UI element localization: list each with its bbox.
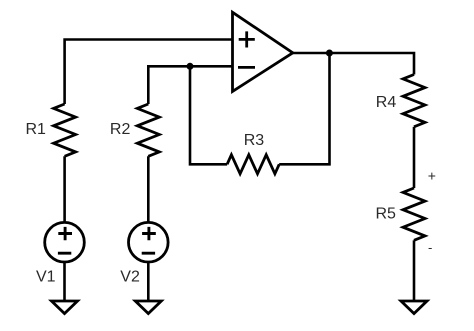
svg-text:R5: R5 <box>376 206 397 223</box>
ground under R5 <box>401 301 427 314</box>
wire R4 bottom to R5 top <box>413 127 416 188</box>
svg-text:R4: R4 <box>376 94 397 111</box>
resistor R4 <box>403 75 425 127</box>
wire node A down to R3 left <box>190 66 227 164</box>
node B output junction <box>326 50 333 57</box>
resistor R1 <box>54 104 76 156</box>
ground under V2 <box>135 301 161 314</box>
wire U1 output to R4 top <box>293 53 414 75</box>
svg-text:-: - <box>428 240 432 255</box>
wire R3 right up to output node <box>279 53 329 164</box>
ground under V1 <box>52 301 78 314</box>
wire V2 bottom to ground <box>147 262 150 301</box>
wire R2 bottom to V2 <box>147 156 150 222</box>
voltage source V2 <box>129 222 169 262</box>
wire R1 bottom to V1 <box>63 156 66 222</box>
svg-text:V1: V1 <box>36 269 56 286</box>
wire R2 top to U1 - input <box>148 66 232 104</box>
resistor R3 <box>227 155 279 174</box>
resistor R2 <box>137 104 159 156</box>
voltage source V1 <box>45 222 85 262</box>
op-amp U1 <box>233 12 293 91</box>
resistor R5 <box>403 188 425 240</box>
svg-text:V2: V2 <box>120 269 140 286</box>
node A inverting-input junction <box>187 63 194 70</box>
wire R5 bottom to ground <box>413 240 416 301</box>
svg-text:R1: R1 <box>26 121 47 138</box>
svg-text:R3: R3 <box>244 132 265 149</box>
wire V1 bottom to ground <box>63 262 66 301</box>
svg-text:+: + <box>428 167 436 183</box>
svg-text:R2: R2 <box>110 121 131 138</box>
wire R1 top to U1 + input <box>65 40 233 105</box>
